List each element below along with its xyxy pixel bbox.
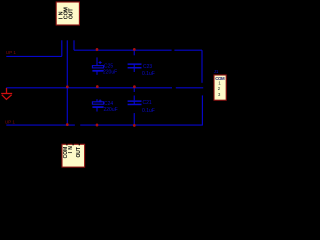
svg-text:C21: C21 [143,100,152,106]
wire: riser to connector J1 pin 3 [201,95,203,125]
wire: output rail (right part after break) [174,49,202,51]
svg-text:N: N [68,146,74,150]
junction at (134,125) bottom rail / C21 [133,124,136,127]
capacitor C25 (electrolytic 220uF, top left) [92,57,117,75]
svg-text:C25: C25 [104,63,113,69]
svg-text:C23: C23 [143,64,152,70]
U1 pin name OUT (rotated) [69,8,75,20]
U2 pin name COM (rotated) [63,147,69,159]
junction at (134,50) output rail / C23 [133,48,136,51]
ground (power ground symbol, red) [1,88,12,99]
U1 pin name IN (rotated) [59,11,65,19]
wire: drop to connector J1 pin 1 [201,50,203,83]
junction at (97,125) bottom rail / C24 [96,124,99,127]
junction at (67,125) bottom rail / COM [66,123,69,126]
capacitor C21 (0.1uF, bottom right) [128,88,155,125]
wire: U1 OUT pin stub down [73,40,75,50]
wire: middle ground rail (left part) [6,87,172,89]
capacitor C23 (0.1uF, top right) [128,50,155,77]
U1 pin name COM (rotated) [64,7,70,20]
wire: input line to left edge [6,55,62,57]
junction at (134,88) ground rail / C23-C21 [133,85,136,88]
regulator U2 (sheet part box, bottom) [62,144,85,167]
connector J1 (CON3 box, right edge) [214,75,226,100]
svg-text:0.1uF: 0.1uF [142,108,155,114]
svg-text:220uF: 220uF [103,69,117,75]
wire: bottom rail right segment [80,124,203,126]
capacitor C24 (electrolytic 220uF, bottom left) [92,99,117,113]
wire: U1 IN pin stub down [61,40,63,56]
U2 pin marks on top border [67,144,79,146]
U2 pin name OUT (rotated) [76,147,82,157]
wire: middle ground rail (right part after break) [176,87,203,89]
wire: U1 COM pin down through ground rails [66,40,68,125]
wire: output rail (left part) [74,49,172,51]
junction at (97,88) ground rail / C25-C24 [96,85,99,88]
svg-text:UP 1: UP 1 [5,119,16,124]
U2 pin name IN (rotated) [68,146,74,154]
svg-text:T: T [76,147,82,150]
svg-text:220uF: 220uF [104,107,118,113]
svg-text:C24: C24 [104,101,113,107]
regulator U1 (sheet part box, top) [56,2,79,25]
svg-text:UP 1: UP 1 [6,50,17,55]
svg-text:J1: J1 [214,69,219,74]
wire: bottom rail left segment [6,124,75,126]
junction at (97,50) output rail / C25 [96,48,99,51]
junction at (67,88) ground rail / COM [66,85,69,88]
svg-text:0.1uF: 0.1uF [142,71,155,77]
